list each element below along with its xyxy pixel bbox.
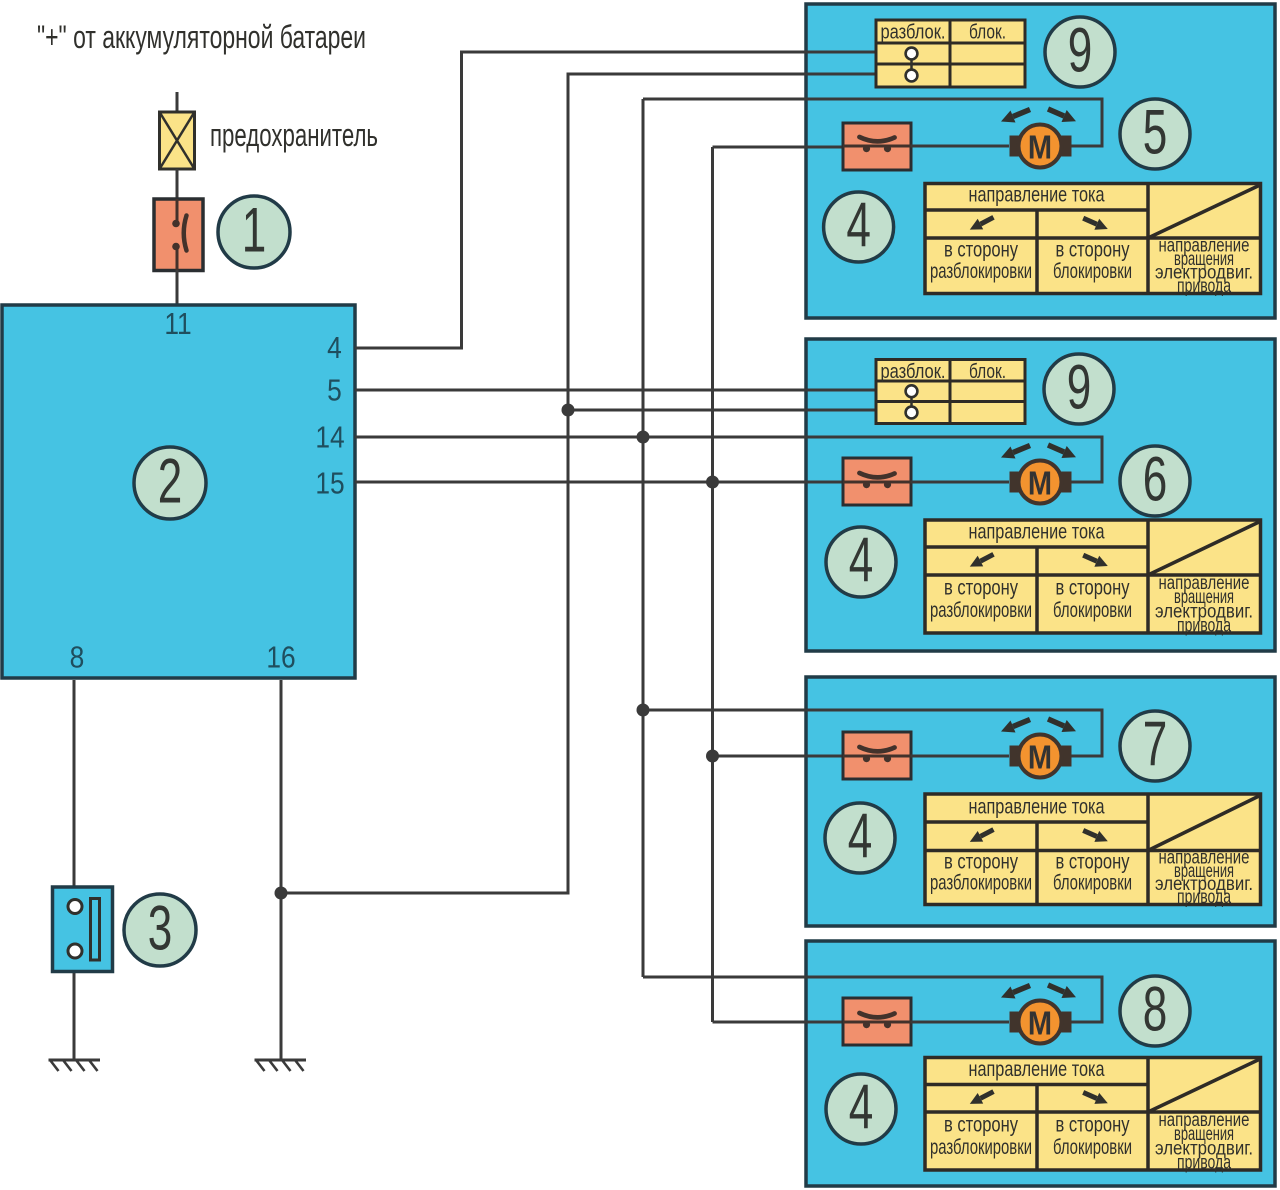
svg-text:M: M [1028,465,1052,502]
svg-text:3: 3 [148,893,173,964]
wire: pin 5 to разблок. contact panel B [355,389,876,392]
pin label 15 [315,467,344,501]
callout circle 1 switch [218,195,290,268]
callout circle 4 panel A [824,190,894,262]
svg-text:в сторону: в сторону [944,576,1018,599]
svg-text:5: 5 [327,374,342,408]
wire: pin 15 to switch B [355,481,843,484]
svg-text:в сторону: в сторону [1056,576,1130,599]
svg-text:привода: привода [1177,887,1231,908]
arrow в сторону разблокировки arrow panel C [970,830,994,842]
svg-text:11: 11 [164,307,191,341]
svg-text:4: 4 [848,801,873,872]
svg-text:в сторону: в сторону [1056,239,1130,262]
svg-text:привода: привода [1177,615,1231,636]
arrow rotation cw above motor B [1048,445,1076,458]
motor panel C (электродвигатель M) [1010,735,1072,778]
svg-text:2: 2 [158,446,183,517]
svg-text:направление тока: направление тока [969,520,1105,544]
svg-text:блокировки: блокировки [1053,260,1132,283]
wire: branch to switch C [713,755,844,758]
label направление вращения электродвиг. привода panel A [1155,236,1253,298]
arrow в сторону блокировки arrow panel B [1083,555,1108,567]
svg-text:блокировки: блокировки [1053,599,1132,622]
callout circle 9 panel B [1044,352,1114,424]
svg-text:разблокировки: разблокировки [930,871,1032,894]
pin label 4 [327,331,342,365]
svg-text:блокировки: блокировки [1053,871,1132,894]
wire: switch 1 to pin 11 [176,270,179,305]
arrow в сторону блокировки arrow panel D [1083,1092,1108,1103]
arrow rotation ccw above motor A [1001,110,1030,123]
panel box: rear left door actuator [806,677,1275,926]
callout circle 3 door switch [124,893,196,966]
callout circle 4 panel D [826,1072,896,1144]
wire: switch B to motor B [911,481,1009,484]
component 3: door jamb switch [53,887,113,972]
panel box: front left door actuator [806,4,1275,318]
arrow в сторону разблокировки arrow panel D [970,1092,994,1104]
svg-text:1: 1 [242,195,267,266]
arrow rotation ccw above motor D [1001,986,1030,999]
pin label 5 [327,374,342,408]
callout circle 2 control unit [134,446,206,519]
arrow rotation cw above motor C [1048,719,1076,732]
svg-text:разблокировки: разблокировки [930,260,1032,283]
svg-text:M: M [1028,739,1052,776]
svg-text:4: 4 [327,331,342,365]
svg-text:8: 8 [70,641,85,675]
junction x568/блок. row B [562,404,575,417]
junction pin16/bus [275,887,288,900]
svg-text:5: 5 [1143,97,1168,168]
table разблок./блок. panel B [876,360,1025,424]
table разблок./блок. panel A [876,20,1025,87]
svg-text:в сторону: в сторону [944,239,1018,262]
junction x712/switch C [706,750,719,763]
table направление тока panel B [925,520,1261,633]
pin label 14 [315,421,344,455]
svg-text:блокировки: блокировки [1053,1136,1132,1159]
wire: pin 14 to motor B [355,437,1102,482]
wire: pin 4 to разблок. contact panel A [355,52,876,348]
wire: branch to motor C [643,710,1102,756]
wire: battery feed to fuse [176,92,179,112]
callout circle 9 panel A [1045,15,1115,87]
wire: branch to motor D [643,977,1102,1022]
svg-text:разблок.: разблок. [881,360,946,383]
svg-text:блок.: блок. [969,21,1006,44]
svg-text:8: 8 [1143,974,1168,1045]
table направление тока panel D [925,1058,1261,1171]
svg-text:привода: привода [1177,276,1231,297]
svg-text:4: 4 [849,525,874,596]
motor panel B (электродвигатель M) [1010,461,1072,504]
pin label 8 [70,641,85,675]
arrow в сторону разблокировки arrow panel A [970,217,994,229]
pin label 16 [266,641,295,675]
svg-text:блок.: блок. [969,360,1006,383]
svg-text:в сторону: в сторону [1056,1113,1130,1136]
svg-text:в сторону: в сторону [944,851,1018,874]
arrow rotation cw above motor D [1048,985,1076,998]
wire: switch D to motor D [911,1021,1009,1024]
ground pin 16 [255,1060,307,1071]
svg-text:"+" от аккумуляторной батареи: "+" от аккумуляторной батареи [37,19,366,55]
wire: branch to motor A [643,99,1102,146]
label направление вращения электродвиг. привода panel D [1155,1110,1253,1173]
junction x643/motor C [637,704,650,717]
svg-text:разблок.: разблок. [881,21,946,44]
wire: branch to switch D [713,1021,844,1024]
svg-text:9: 9 [1067,352,1092,423]
motor panel A (электродвигатель M) [1010,125,1072,168]
switch panel A (normally-open contact) [843,123,911,170]
callout circle 5 panel A [1120,97,1190,169]
svg-text:предохранитель: предохранитель [210,117,378,153]
label направление вращения электродвиг. привода panel B [1155,573,1253,636]
wire: pin 8 to door switch 3 [73,680,76,887]
wire: door switch 3 to ground [73,971,76,1060]
label направление вращения электродвиг. привода panel C [1155,848,1253,908]
arrow в сторону блокировки arrow panel A [1083,218,1108,230]
wire: branch to блок. contact row panel B [568,409,876,412]
svg-text:15: 15 [315,467,344,501]
arrow rotation ccw above motor C [1001,720,1030,733]
panel box: front right door actuator [806,339,1275,651]
switch panel B (normally-open contact) [843,458,911,505]
svg-text:M: M [1028,1005,1052,1042]
arrow rotation cw above motor A [1048,109,1076,122]
pin label 11 [164,307,191,341]
callout circle 7 panel C [1120,709,1190,781]
table направление тока panel A [925,184,1261,294]
wire: branch to switch A [713,146,844,149]
svg-text:16: 16 [266,641,295,675]
junction x712/pin15 [706,476,719,489]
svg-text:привода: привода [1177,1152,1231,1173]
wire: fuse to switch 1 [176,169,179,199]
wire: switch bus x=712 [711,147,714,1022]
fuse предохранитель [160,112,195,169]
svg-text:в сторону: в сторону [1056,851,1130,874]
svg-text:направление тока: направление тока [969,1057,1105,1081]
svg-text:4: 4 [846,190,871,261]
svg-text:в сторону: в сторону [944,1113,1018,1136]
switch contacts in table panel A [906,48,918,82]
svg-text:7: 7 [1143,709,1168,780]
svg-text:направление тока: направление тока [969,795,1105,819]
svg-text:разблокировки: разблокировки [930,1136,1032,1159]
switch panel C (normally-open contact) [843,732,911,779]
wire: switch A to motor A [911,145,1009,148]
svg-text:6: 6 [1143,444,1168,515]
ground below door switch [49,1060,101,1071]
callout circle 8 panel D [1120,974,1190,1046]
svg-text:направление тока: направление тока [969,183,1105,207]
arrow rotation ccw above motor B [1001,446,1030,459]
wire: switch C to motor C [911,755,1009,758]
callout circle 6 panel B [1120,444,1190,516]
svg-text:разблокировки: разблокировки [930,599,1032,622]
svg-text:M: M [1028,129,1052,166]
switch panel D (normally-open contact) [843,998,911,1045]
switch 1 (выключатель блокировки) [154,199,203,271]
svg-text:14: 14 [315,421,344,455]
junction x643/pin14 [637,431,650,444]
block 2: control unit (блок управления) [2,305,355,678]
arrow в сторону блокировки arrow panel C [1083,830,1108,841]
wire: pin 16 to ground [280,680,283,1060]
svg-text:4: 4 [849,1072,874,1143]
motor panel D (электродвигатель M) [1010,1001,1072,1044]
wire: motor bus x=643 [642,99,645,977]
svg-text:9: 9 [1068,15,1093,86]
callout circle 4 panel C [825,801,895,873]
table направление тока panel C [925,794,1261,905]
wire: contact bus x=568 to ground via pin 16 [281,74,876,893]
arrow в сторону разблокировки arrow panel B [970,554,994,566]
panel box: rear right door actuator [806,941,1275,1186]
callout circle 4 panel B [826,525,896,597]
switch contacts in table panel B [906,385,918,418]
